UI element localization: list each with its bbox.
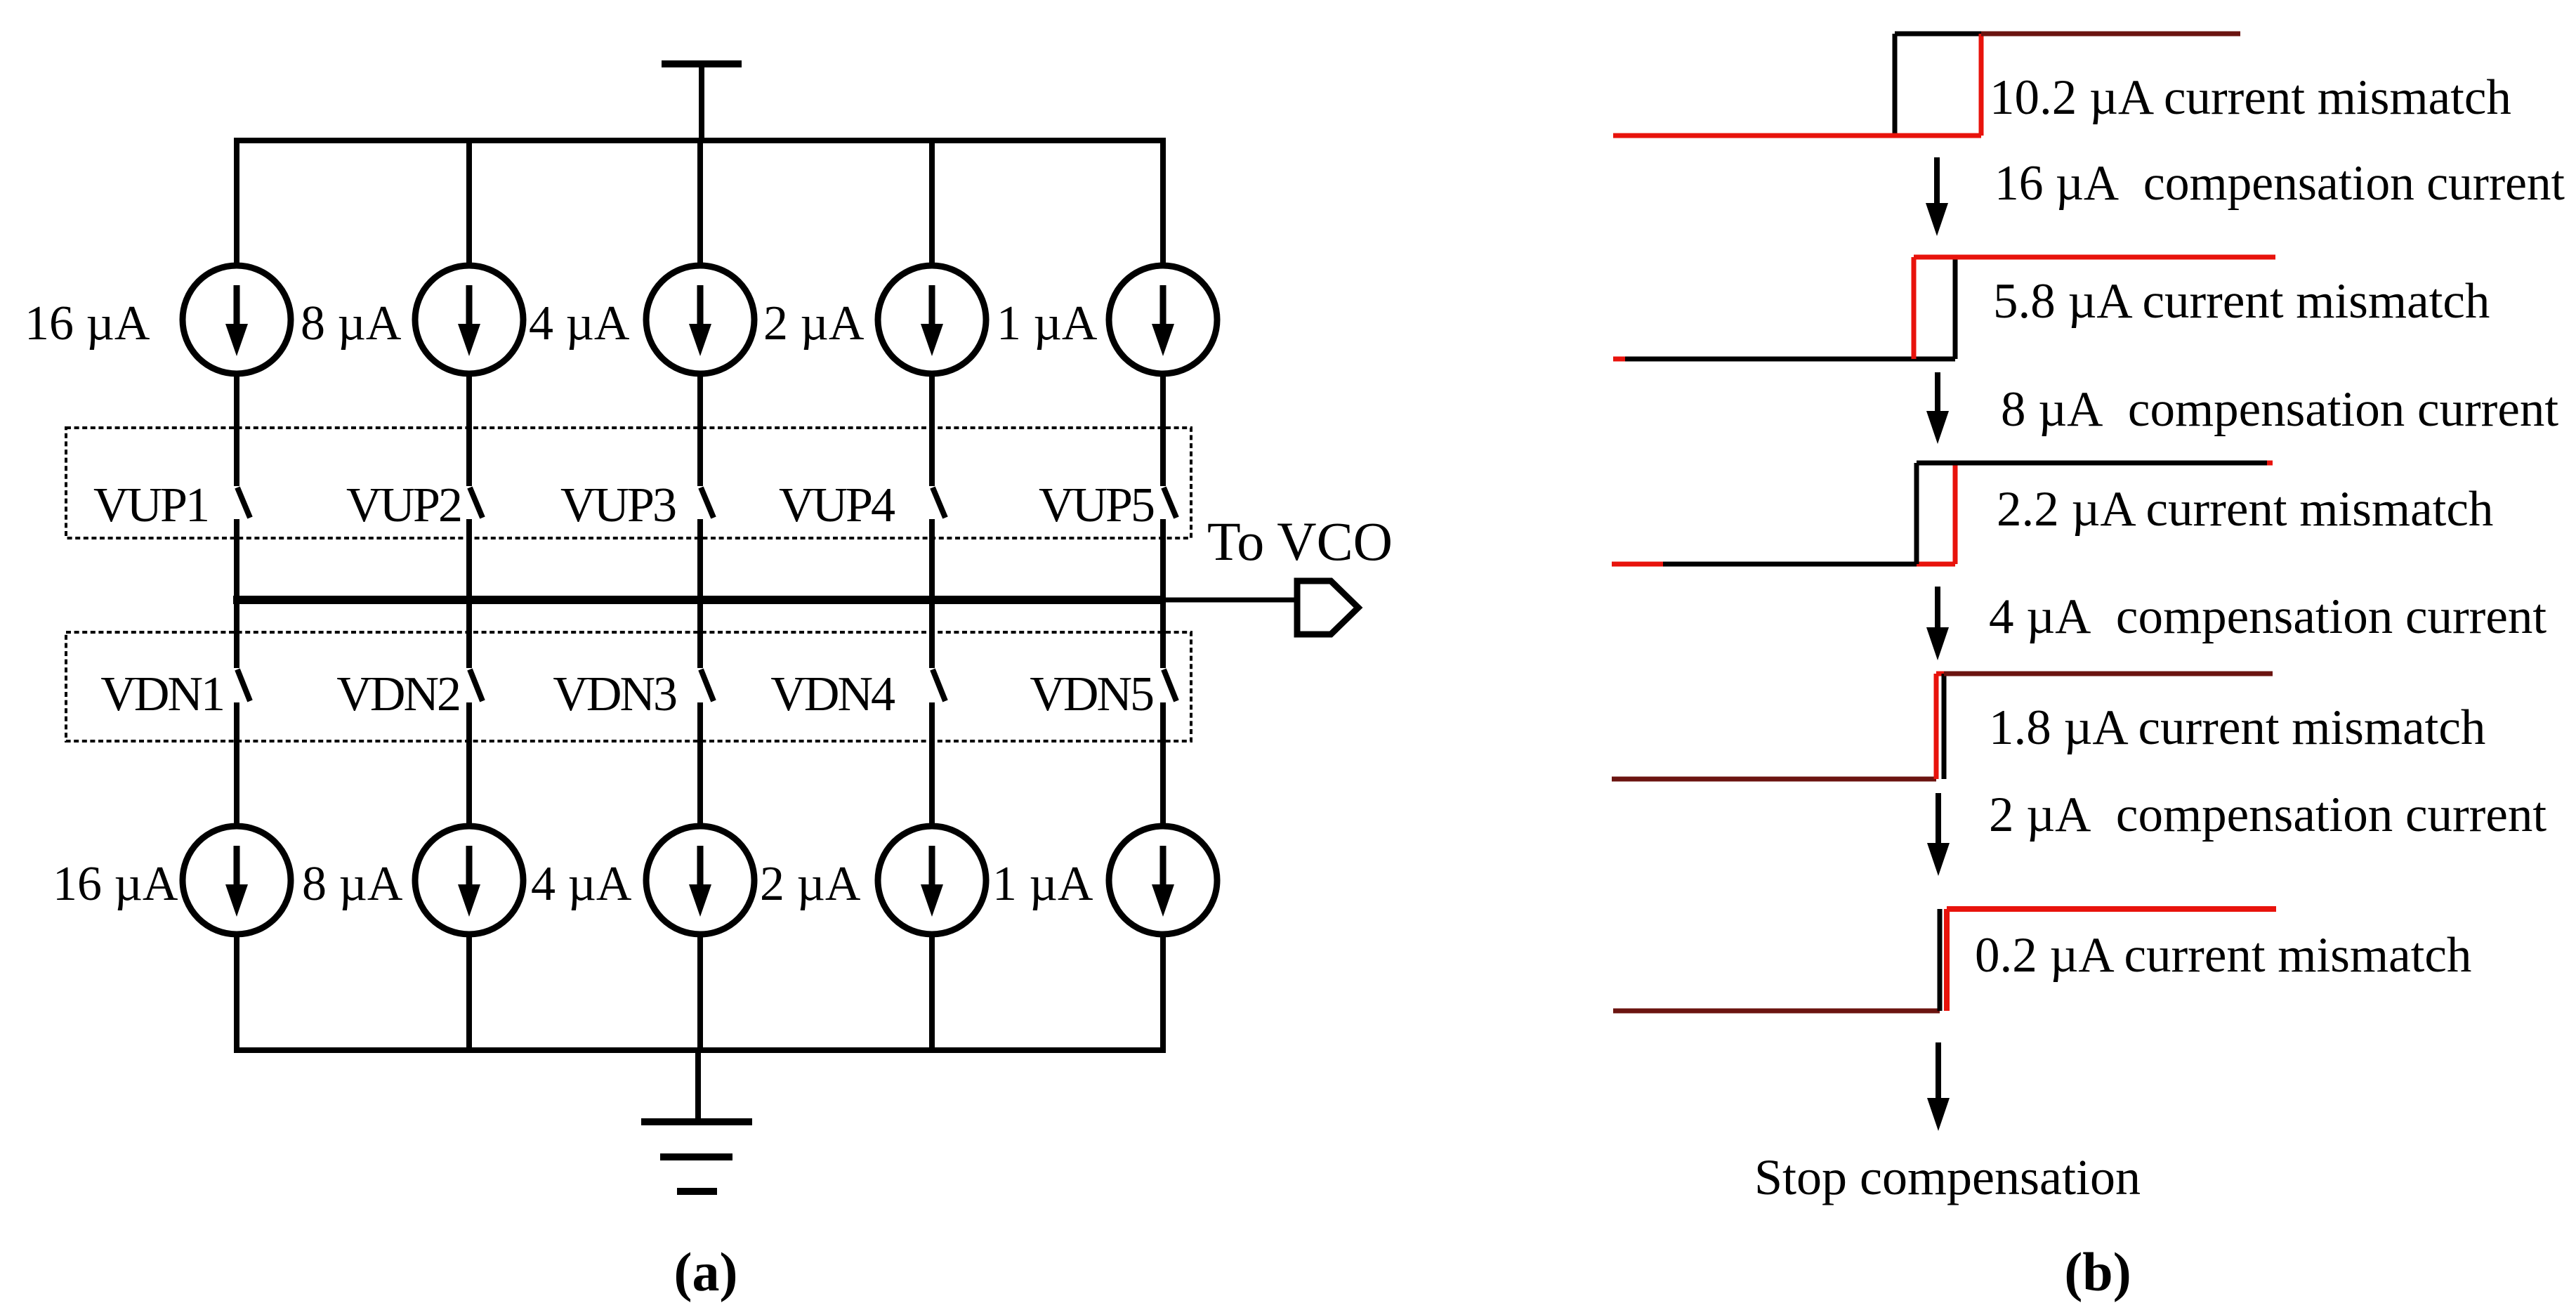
svg-text:VDN4: VDN4 <box>770 667 895 721</box>
wire bus to switch VDN3 <box>697 600 703 668</box>
svg-text:1 µA: 1 µA <box>997 296 1098 351</box>
wire VDN1 to source I6 <box>234 702 239 827</box>
svg-text:To VCO: To VCO <box>1207 511 1393 572</box>
ground <box>641 1050 752 1191</box>
svg-text:1.8 µA current mismatch: 1.8 µA current mismatch <box>1989 700 2485 755</box>
svg-text:VDN3: VDN3 <box>553 667 676 721</box>
waveform 2 red trace <box>1613 257 2275 359</box>
arrow 4 uA compensation <box>1926 587 1949 660</box>
current source I1 top (16 µA) <box>183 140 291 374</box>
switch VUP2 <box>470 488 482 518</box>
wire VDN4 to source I9 <box>929 702 935 827</box>
svg-text:(a): (a) <box>674 1241 738 1302</box>
waveform 5 baseline (overlapped) <box>1613 1009 1940 1014</box>
top supply rail <box>234 138 1166 143</box>
arrow stop compensation <box>1927 1042 1950 1131</box>
wire VDN5 to source I10 <box>1160 702 1166 827</box>
svg-text:VUP2: VUP2 <box>346 478 461 532</box>
svg-text:VDN5: VDN5 <box>1030 667 1153 721</box>
dashed box VDN switches <box>66 632 1191 741</box>
node: To VCO bus <box>233 596 1164 604</box>
RIGHT: waveform diagram (b) <box>674 34 2565 1302</box>
wire I2 to switch VUP2 <box>466 374 472 486</box>
svg-text:2 µA: 2 µA <box>763 296 865 351</box>
wire I8 to bottom rail <box>697 934 703 1050</box>
waveform 4 baseline (overlapped) <box>1612 777 1936 782</box>
svg-text:VUP4: VUP4 <box>779 478 895 532</box>
svg-text:4 µA: 4 µA <box>531 857 632 911</box>
waveform 4 top line (overlapped) <box>1944 672 2273 676</box>
wire VUP2 to bus <box>466 519 472 600</box>
switch VDN1 <box>237 669 250 701</box>
switch VDN2 <box>470 669 482 701</box>
svg-text:2 µA compensation current: 2 µA compensation current <box>1989 787 2547 842</box>
wire bus to switch VDN5 <box>1160 600 1166 668</box>
wire VUP1 to bus <box>234 519 239 600</box>
svg-text:16 µA: 16 µA <box>53 857 178 911</box>
svg-text:16 µA: 16 µA <box>25 296 150 351</box>
current source I9 bottom (2 µA) <box>878 826 986 934</box>
svg-text:2.2 µA current mismatch: 2.2 µA current mismatch <box>1997 482 2493 537</box>
wire I3 to switch VUP3 <box>697 374 703 486</box>
svg-text:1 µA: 1 µA <box>992 857 1093 911</box>
switch VUP1 <box>237 488 250 518</box>
svg-text:10.2 µA current mismatch: 10.2 µA current mismatch <box>1990 70 2511 125</box>
arrow 8 uA compensation <box>1926 372 1949 444</box>
switch VUP3 <box>701 488 714 518</box>
wire VDN2 to source I7 <box>466 702 472 827</box>
switch VDN5 <box>1164 669 1176 701</box>
svg-text:VDN2: VDN2 <box>336 667 459 721</box>
To VCO port symbol <box>1297 581 1358 634</box>
waveform 4 black trace (1.8 uA mismatch) <box>1942 674 1947 779</box>
wire bus to switch VDN2 <box>466 600 472 668</box>
wire I4 to switch VUP4 <box>929 374 935 486</box>
wire to VCO port <box>1163 598 1297 603</box>
wire VDN3 to source I8 <box>697 702 703 827</box>
waveform 5 red trace <box>1947 909 2276 1011</box>
svg-text:4 µA: 4 µA <box>529 296 630 351</box>
wire I5 to switch VUP5 <box>1160 374 1166 486</box>
switch VDN3 <box>701 669 714 701</box>
bottom rail <box>234 1047 1166 1053</box>
svg-text:VUP1: VUP1 <box>93 478 208 532</box>
wire VUP5 to bus <box>1160 519 1166 600</box>
svg-text:VUP3: VUP3 <box>560 478 676 532</box>
current source I7 bottom (8 µA) <box>415 826 523 934</box>
wire I7 to bottom rail <box>466 934 472 1050</box>
svg-text:Stop compensation: Stop compensation <box>1754 1149 2141 1205</box>
current source I3 top (4 µA) <box>646 140 754 374</box>
LEFT: circuit (a) <box>25 64 1393 1191</box>
arrow 16 uA compensation <box>1926 157 1948 236</box>
arrow 2 uA compensation <box>1927 793 1950 876</box>
VDD supply symbol <box>662 64 742 140</box>
wire VUP4 to bus <box>929 519 935 600</box>
current source I8 bottom (4 µA) <box>646 826 754 934</box>
svg-text:4 µA compensation current: 4 µA compensation current <box>1989 589 2547 644</box>
current source I4 top (2 µA) <box>878 140 986 374</box>
svg-text:16 µA compensation current: 16 µA compensation current <box>1995 156 2565 211</box>
wire I1 to switch VUP1 <box>234 374 239 486</box>
svg-text:VDN1: VDN1 <box>100 667 223 721</box>
current source I10 bottom (1 µA) <box>1109 826 1217 934</box>
wire VUP3 to bus <box>697 519 703 600</box>
switch VUP5 <box>1164 488 1176 518</box>
waveform 1 black trace (10.2 uA mismatch) <box>1895 34 1981 136</box>
current source I2 top (8 µA) <box>415 140 523 374</box>
wire bus to switch VDN4 <box>929 600 935 668</box>
waveform 4 red trace <box>1936 674 1945 779</box>
current source I6 bottom (16 µA) <box>183 826 291 934</box>
svg-text:2 µA: 2 µA <box>760 857 861 911</box>
waveform 2 black trace (5.8 uA mismatch) <box>1624 257 1955 359</box>
wire I9 to bottom rail <box>929 934 935 1050</box>
current source I5 top (1 µA) <box>1109 140 1217 374</box>
wire I10 to bottom rail <box>1160 934 1166 1050</box>
svg-text:0.2 µA current mismatch: 0.2 µA current mismatch <box>1975 928 2471 983</box>
svg-text:8 µA: 8 µA <box>302 857 403 911</box>
switch VDN4 <box>933 669 945 701</box>
svg-text:VUP5: VUP5 <box>1039 478 1154 532</box>
dashed box VUP switches <box>66 428 1191 538</box>
switch VUP4 <box>933 488 945 518</box>
waveform 3 red trace <box>1612 463 2273 564</box>
svg-text:5.8 µA current mismatch: 5.8 µA current mismatch <box>1993 274 2490 329</box>
waveform 5 black trace (0.2 uA mismatch) <box>1938 909 1943 1011</box>
wire I6 to bottom rail <box>234 934 239 1050</box>
svg-text:8 µA compensation current: 8 µA compensation current <box>2001 382 2558 437</box>
wire bus to switch VDN1 <box>234 600 239 668</box>
waveform 3 black trace (2.2 uA mismatch) <box>1663 463 2267 564</box>
svg-text:8 µA: 8 µA <box>301 296 402 351</box>
svg-text:(b): (b) <box>2064 1241 2131 1302</box>
waveform 1 red trace <box>1613 34 2240 136</box>
